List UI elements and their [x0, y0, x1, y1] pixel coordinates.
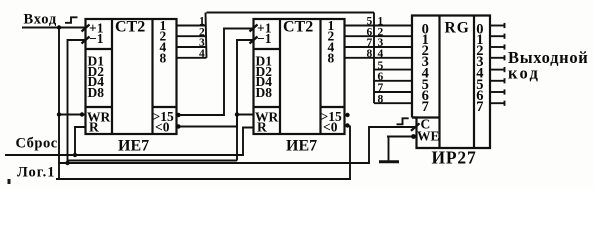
register U3 input pin 2 [422, 43, 429, 59]
register U3 output pin 6 [476, 88, 483, 104]
net number 8 [367, 48, 373, 60]
counter U1 pin D4 [88, 74, 105, 89]
register U3 label RG [445, 20, 470, 37]
net number 2 at register [378, 26, 384, 38]
counter U2 pin WR [255, 110, 279, 125]
svg-text:<0: <0 [323, 120, 338, 135]
node WE junction [411, 134, 416, 139]
label Sbros [16, 136, 58, 152]
svg-text:7: 7 [476, 99, 483, 115]
net number 4 [199, 48, 205, 60]
svg-text:R: R [257, 120, 267, 135]
svg-text:RG: RG [445, 20, 470, 37]
svg-text:R: R [89, 120, 99, 135]
counter U1 pin WR [87, 110, 111, 125]
register input wire 1 [374, 35, 412, 37]
register U3 separator above C [412, 116, 440, 118]
register U3 input pin 3 [422, 54, 429, 70]
register output wire 5 [490, 78, 505, 83]
label output code line1 [508, 48, 589, 67]
counter U2 output pin 8 [328, 50, 335, 65]
counter U1 output pin <0 [155, 120, 170, 135]
wire borrow net drop to C line [236, 115, 238, 161]
counter U2 pin D4 [256, 74, 273, 89]
node WR U2 junction [235, 112, 239, 116]
counter U2 pin D2 [256, 64, 273, 79]
counter U1 divider right [151, 19, 153, 134]
node input junction [57, 25, 61, 29]
counter U2 pin -1 [257, 31, 272, 46]
counter U2 pin D1 [256, 54, 273, 69]
node borrow U1 [176, 124, 180, 128]
counter U1 output pin >15 [153, 109, 174, 124]
wire logic1 line [56, 126, 350, 180]
pulse symbol before +1 [65, 17, 78, 23]
wire C clock line [59, 127, 417, 163]
register U3 input pin 6 [422, 88, 429, 104]
register input wire 0 [374, 25, 412, 27]
counter U1 pin D8 [88, 85, 105, 100]
svg-text:CT2: CT2 [115, 19, 145, 36]
wire -1 U1 [68, 40, 86, 163]
counter U1 divider left [111, 19, 113, 134]
register U3 output pin 7 [476, 99, 483, 115]
wire WR U2 to logic1 [237, 114, 254, 116]
net number 3 [199, 37, 205, 49]
node carry U1 [176, 113, 180, 117]
svg-text:ИР27: ИР27 [432, 148, 477, 168]
wire reset line [5, 128, 254, 156]
counter U1 pin R [89, 120, 99, 135]
svg-text:−1: −1 [89, 31, 104, 46]
label Vhod [24, 12, 58, 28]
counter U1 outer box [86, 19, 177, 134]
register output wire 4 [490, 67, 505, 72]
node R U1 on reset line [73, 153, 77, 157]
register output wire 1 [490, 34, 505, 39]
register U3 input pin 0 [422, 22, 429, 38]
register input wire 4 [374, 69, 412, 71]
counter U1 label CT2 [115, 19, 145, 36]
counter U2 output wire 4 [345, 46, 375, 48]
svg-text:8: 8 [378, 93, 384, 105]
svg-text:WE: WE [417, 129, 440, 144]
counter U2 output pin 2 [328, 29, 335, 44]
svg-text:8: 8 [328, 50, 335, 65]
label Log1 [17, 165, 56, 181]
register U3 input pin 4 [422, 66, 429, 82]
wire logic1 left tick [8, 179, 11, 184]
register U3 pin WE [417, 129, 440, 144]
counter U2 right column separator above >15 [321, 106, 345, 108]
register input wire 2 [374, 46, 412, 48]
net number 7 at register [378, 82, 384, 94]
wire input vertical to C line [58, 28, 60, 180]
counter U1 pin D2 [88, 64, 105, 79]
wire line A to borrow drop [68, 160, 238, 162]
register output wire 7 [490, 101, 505, 106]
net number 8 at register [378, 93, 384, 105]
dynamic slash C [411, 123, 420, 131]
svg-text:<0: <0 [155, 120, 170, 135]
counter U2 output pin 1 [328, 18, 335, 33]
register U3 input pin 5 [422, 77, 429, 93]
counter U2 label CT2 [283, 19, 313, 36]
counter U2 pin D8 [256, 85, 273, 100]
register U3 output pin 2 [476, 43, 483, 59]
dynamic slash -1 U1 [82, 37, 90, 44]
wire borrow <0 U1 to -1 U2 [177, 40, 254, 127]
net number 2 [199, 26, 205, 38]
counter U1 right column separator above >15 [153, 106, 177, 108]
counter U1 designator IE7 [118, 138, 149, 155]
net number 5 [367, 16, 373, 28]
counter U1 output pin 8 [160, 50, 167, 65]
net number 6 at register [378, 71, 384, 83]
svg-text:8: 8 [367, 48, 373, 60]
ground stem [388, 137, 390, 161]
counter U1 output wire 4 [177, 46, 207, 48]
counter U2 output pin >15 [321, 109, 342, 124]
dynamic slash +1 U2 [250, 25, 258, 32]
net number 3 at register [378, 37, 384, 49]
counter U1 output pin 1 [160, 18, 167, 33]
net number 1 at register [378, 16, 384, 28]
svg-text:4: 4 [199, 48, 205, 60]
svg-text:8: 8 [160, 50, 167, 65]
register input wire 5 [374, 80, 412, 82]
counter U2 output wire 2 [345, 35, 375, 37]
node borrow U2 terminal [345, 123, 349, 127]
wire WE [387, 136, 417, 138]
svg-text:Лог.1: Лог.1 [17, 165, 56, 181]
group bus left vertical [206, 13, 207, 58]
label output code line2 [508, 64, 540, 83]
wire R U1 to reset [75, 127, 86, 155]
counter U2 left column separator under -1 [254, 48, 281, 50]
svg-text:4: 4 [378, 48, 384, 60]
counter U2 output pin <0 [323, 120, 338, 135]
counter U2 output wire 1 [345, 25, 375, 27]
counter U1 pin -1 [89, 31, 104, 46]
register U3 output pin 4 [476, 66, 483, 82]
register U3 outer box [412, 16, 490, 149]
wire WR U1 [59, 114, 86, 116]
net number 4 at register [378, 48, 384, 60]
counter U1 output wire 1 [177, 25, 207, 27]
counter U1 output wire 8 [177, 57, 207, 59]
svg-text:D8: D8 [256, 85, 273, 100]
pulse symbol before C [397, 118, 409, 124]
counter U1 pin D1 [88, 54, 105, 69]
ground bar [379, 160, 399, 163]
counter U2 divider right [319, 19, 321, 134]
svg-text:Сброс: Сброс [16, 136, 58, 152]
net number 6 [367, 26, 373, 38]
dynamic slash -1 U2 [250, 37, 258, 44]
register output wire 3 [490, 55, 505, 60]
counter U1 left column separator above WR [86, 106, 113, 108]
svg-text:7: 7 [378, 82, 384, 94]
svg-text:CT2: CT2 [283, 19, 313, 36]
register input wire 6 [374, 91, 412, 93]
register U3 input pin 7 [422, 99, 429, 115]
svg-text:7: 7 [422, 99, 429, 115]
register U3 divider right [473, 16, 475, 149]
wire carry >15 U1 to +1 U2 [177, 29, 254, 116]
counter U1 output wire 2 [177, 35, 207, 37]
register U3 pin C [421, 117, 431, 132]
svg-text:ИЕ7: ИЕ7 [286, 138, 317, 155]
counter U2 output pin 4 [328, 40, 335, 55]
register U3 divider left [438, 16, 440, 149]
group bus top horizontal [207, 12, 375, 14]
register output wire 2 [490, 44, 505, 49]
svg-text:ИЕ7: ИЕ7 [118, 138, 149, 155]
svg-text:6: 6 [378, 71, 384, 83]
counter U2 outer box [254, 19, 345, 134]
svg-text:−1: −1 [257, 31, 272, 46]
register U3 output pin 5 [476, 77, 483, 93]
group bus right vertical [373, 13, 375, 104]
counter U1 output pin 2 [160, 29, 167, 44]
svg-text:Вход: Вход [24, 12, 58, 28]
register output wire 0 [490, 23, 505, 28]
node WR U1 second dot [80, 112, 84, 116]
register input wire 7 [374, 102, 412, 104]
counter U2 designator IE7 [286, 138, 317, 155]
counter U1 left column separator under -1 [86, 48, 113, 50]
counter U2 output wire 8 [345, 57, 375, 59]
node -1 line crossing dot [65, 161, 69, 165]
register U3 output pin 1 [476, 32, 483, 48]
counter U1 pin +1 [89, 21, 104, 36]
register U3 output pin 0 [476, 22, 483, 38]
counter U2 divider left [279, 19, 281, 134]
node carry U2 terminal [345, 113, 349, 117]
svg-text:D8: D8 [88, 85, 105, 100]
node WR U1 junction [57, 112, 61, 116]
counter U1 output pin 4 [160, 40, 167, 55]
register U3 designator IR27 [432, 148, 477, 168]
svg-text:5: 5 [378, 60, 384, 72]
counter U2 pin +1 [257, 21, 272, 36]
svg-text:код: код [508, 64, 540, 83]
net number 5 at register [378, 60, 384, 72]
register U3 output pin 3 [476, 54, 483, 70]
net number 7 [367, 37, 373, 49]
register output wire 6 [490, 89, 505, 94]
wire input to +1 [22, 27, 86, 29]
net number 1 [199, 16, 205, 28]
counter U2 pin R [257, 120, 267, 135]
register input wire 3 [374, 57, 412, 59]
counter U2 left column separator above WR [254, 106, 281, 108]
register U3 input pin 1 [422, 32, 429, 48]
dynamic slash +1 U1 [82, 25, 90, 32]
